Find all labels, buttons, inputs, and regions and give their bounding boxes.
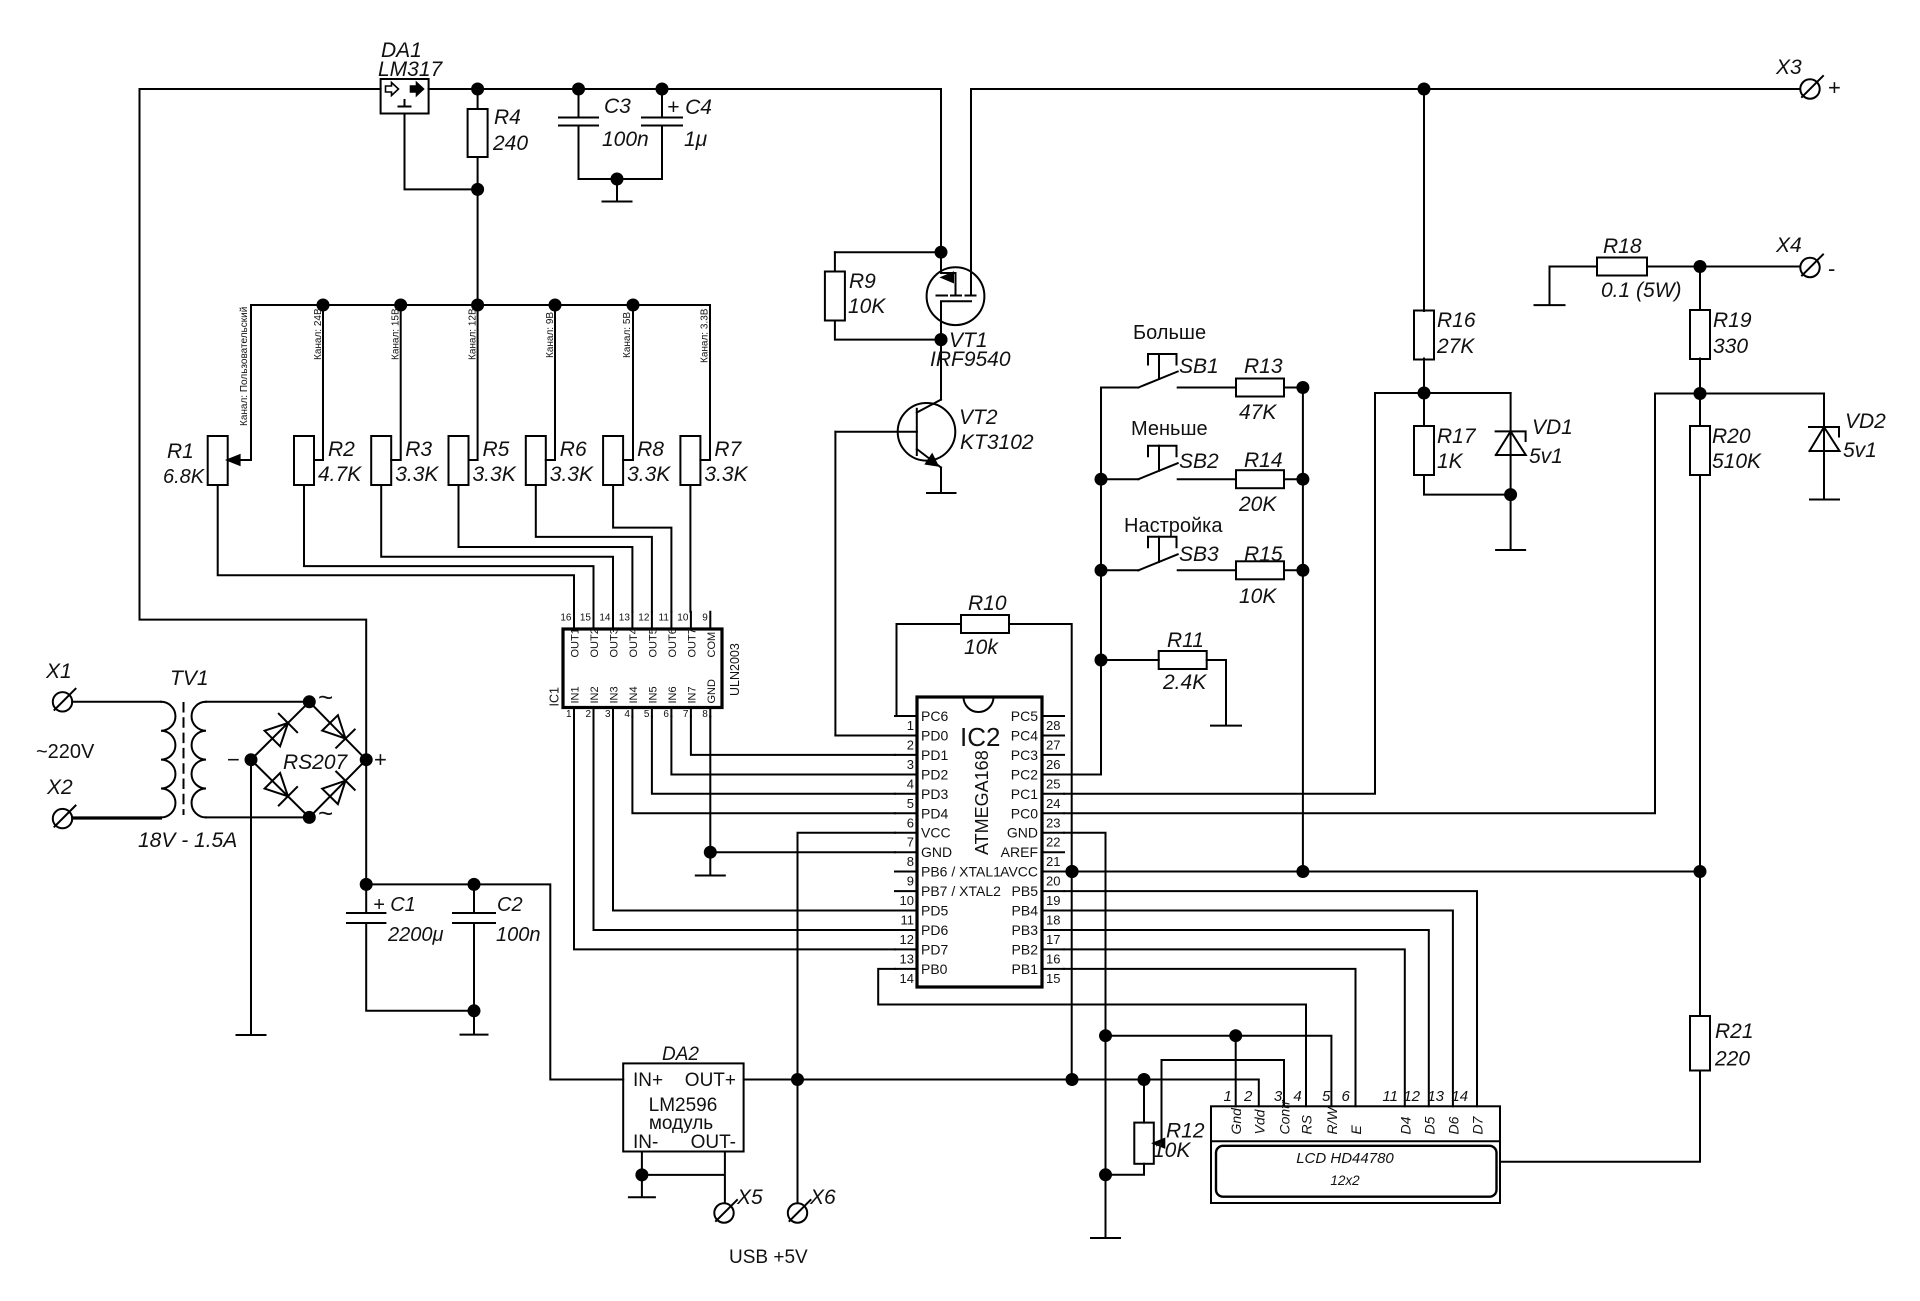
svg-text:13: 13 [1427, 1088, 1444, 1105]
svg-text:240: 240 [492, 132, 528, 155]
svg-text:X2: X2 [46, 776, 73, 799]
svg-text:4: 4 [624, 709, 630, 720]
svg-text:3.3K: 3.3K [550, 463, 594, 486]
svg-text:11: 11 [1382, 1088, 1398, 1105]
svg-text:21: 21 [1046, 854, 1060, 869]
svg-text:GND: GND [706, 679, 718, 704]
svg-text:PB2: PB2 [1012, 941, 1039, 957]
svg-text:12: 12 [638, 613, 650, 624]
svg-text:10K: 10K [1153, 1139, 1191, 1162]
svg-text:+: + [374, 747, 387, 772]
svg-text:TV1: TV1 [170, 667, 209, 690]
svg-text:D6: D6 [1445, 1116, 1461, 1134]
svg-text:OUT+: OUT+ [685, 1070, 736, 1091]
svg-text:15: 15 [580, 613, 592, 624]
svg-text:1K: 1K [1437, 450, 1464, 473]
svg-text:220: 220 [1714, 1048, 1750, 1071]
svg-text:PB1: PB1 [1012, 961, 1039, 977]
svg-text:PC5: PC5 [1011, 708, 1038, 724]
svg-text:OUT6: OUT6 [667, 628, 679, 657]
svg-text:5: 5 [907, 796, 914, 811]
svg-text:11: 11 [901, 913, 915, 928]
svg-text:PB6 / XTAL1: PB6 / XTAL1 [921, 864, 1001, 880]
svg-text:17: 17 [1046, 932, 1060, 947]
svg-text:GND: GND [921, 844, 952, 860]
svg-text:47K: 47K [1239, 401, 1277, 424]
svg-text:2: 2 [907, 738, 914, 753]
svg-text:X6: X6 [809, 1186, 836, 1209]
svg-text:R2: R2 [328, 438, 355, 461]
svg-text:5: 5 [644, 709, 650, 720]
svg-text:3.3K: 3.3K [704, 463, 748, 486]
svg-text:PB0: PB0 [921, 961, 948, 977]
svg-text:R5: R5 [483, 438, 510, 461]
svg-text:510K: 510K [1712, 450, 1762, 473]
svg-text:X3: X3 [1775, 56, 1802, 79]
svg-text:PD1: PD1 [921, 747, 948, 763]
svg-text:PD3: PD3 [921, 786, 948, 802]
svg-text:R7: R7 [714, 438, 742, 461]
svg-text:D7: D7 [1470, 1115, 1486, 1134]
svg-text:GND: GND [1007, 825, 1038, 841]
svg-text:Канал: 3.3В: Канал: 3.3В [700, 308, 711, 363]
svg-text:8: 8 [907, 854, 914, 869]
svg-text:3: 3 [1274, 1088, 1283, 1105]
svg-text:PC6: PC6 [921, 708, 948, 724]
svg-text:R14: R14 [1244, 449, 1283, 472]
svg-text:R9: R9 [849, 270, 876, 293]
svg-text:330: 330 [1713, 335, 1748, 358]
svg-text:PC1: PC1 [1011, 786, 1038, 802]
svg-text:PB5: PB5 [1012, 883, 1039, 899]
svg-text:PB7 / XTAL2: PB7 / XTAL2 [921, 883, 1001, 899]
svg-text:Канал: 24В: Канал: 24В [313, 308, 324, 360]
svg-text:RS207: RS207 [283, 751, 349, 774]
svg-text:PC4: PC4 [1011, 728, 1038, 744]
svg-text:OUT3: OUT3 [609, 628, 621, 657]
svg-text:−: − [227, 747, 240, 772]
svg-text:3.3K: 3.3K [395, 463, 439, 486]
svg-text:1: 1 [566, 709, 572, 720]
svg-text:X1: X1 [45, 660, 72, 683]
svg-text:2: 2 [585, 709, 591, 720]
svg-text:14: 14 [599, 613, 611, 624]
svg-text:R6: R6 [560, 438, 587, 461]
svg-text:4: 4 [907, 777, 914, 792]
svg-text:20: 20 [1046, 874, 1060, 889]
svg-text:5v1: 5v1 [1843, 439, 1877, 462]
svg-text:28: 28 [1046, 718, 1060, 733]
svg-text:OUT2: OUT2 [589, 628, 601, 657]
svg-text:IN2: IN2 [589, 686, 601, 703]
svg-text:AVCC: AVCC [1000, 864, 1038, 880]
svg-text:26: 26 [1046, 757, 1060, 772]
svg-text:Канал: 5В: Канал: 5В [622, 312, 633, 358]
svg-text:2.4K: 2.4K [1162, 671, 1207, 694]
svg-text:IN5: IN5 [647, 686, 659, 703]
svg-text:AREF: AREF [1001, 844, 1038, 860]
svg-text:10: 10 [677, 613, 689, 624]
svg-text:PD5: PD5 [921, 903, 948, 919]
svg-text:7: 7 [907, 835, 914, 850]
svg-text:E: E [1348, 1125, 1364, 1135]
svg-text:R15: R15 [1244, 543, 1283, 566]
svg-text:3.3K: 3.3K [473, 463, 517, 486]
svg-text:PD7: PD7 [921, 941, 948, 957]
svg-text:X5: X5 [736, 1186, 763, 1209]
svg-text:R21: R21 [1715, 1020, 1754, 1043]
svg-text:R16: R16 [1437, 309, 1476, 332]
svg-text:9: 9 [907, 874, 914, 889]
svg-text:25: 25 [1046, 777, 1060, 792]
svg-text:R18: R18 [1603, 235, 1642, 258]
svg-text:3: 3 [907, 757, 914, 772]
svg-text:VT2: VT2 [959, 406, 998, 429]
svg-text:USB +5V: USB +5V [729, 1247, 808, 1268]
svg-text:R10: R10 [968, 592, 1007, 615]
svg-text:18: 18 [1046, 913, 1060, 928]
svg-text:~: ~ [318, 682, 333, 712]
svg-text:5: 5 [1322, 1088, 1331, 1105]
svg-text:14: 14 [900, 971, 914, 986]
svg-text:D4: D4 [1397, 1116, 1413, 1134]
svg-text:IC1: IC1 [548, 687, 562, 707]
svg-text:23: 23 [1046, 815, 1060, 830]
svg-text:DA2: DA2 [662, 1044, 699, 1065]
svg-text:SB1: SB1 [1179, 355, 1219, 378]
svg-text:20K: 20K [1238, 493, 1277, 516]
svg-text:24: 24 [1046, 796, 1060, 811]
svg-text:8: 8 [702, 709, 708, 720]
svg-text:R4: R4 [494, 106, 521, 129]
svg-text:IC2: IC2 [960, 722, 1000, 752]
svg-text:-: - [1828, 256, 1835, 281]
svg-text:1: 1 [907, 718, 914, 733]
svg-text:6.8K: 6.8K [163, 466, 206, 488]
svg-text:PC0: PC0 [1011, 805, 1038, 821]
svg-text:Канал: 12В: Канал: 12В [468, 308, 479, 360]
svg-text:~220V: ~220V [36, 741, 95, 763]
svg-text:PB3: PB3 [1012, 922, 1039, 938]
svg-text:18V - 1.5A: 18V - 1.5A [138, 829, 237, 852]
svg-text:R1: R1 [167, 440, 194, 463]
svg-text:6: 6 [1341, 1088, 1350, 1105]
svg-text:R13: R13 [1244, 355, 1283, 378]
svg-text:0.1 (5W): 0.1 (5W) [1601, 279, 1682, 302]
svg-text:19: 19 [1046, 893, 1060, 908]
svg-text:IN6: IN6 [667, 686, 679, 703]
svg-text:Канал: Пользовательский: Канал: Пользовательский [239, 307, 250, 426]
svg-text:IRF9540: IRF9540 [930, 348, 1011, 371]
svg-text:VD2: VD2 [1845, 410, 1886, 433]
svg-text:IN7: IN7 [686, 686, 698, 703]
svg-text:Gnd: Gnd [1228, 1107, 1244, 1135]
svg-text:100n: 100n [496, 924, 541, 946]
svg-text:100n: 100n [602, 128, 649, 151]
svg-text:OUT1: OUT1 [570, 628, 582, 657]
svg-text:Больше: Больше [1133, 322, 1206, 344]
svg-text:OUT4: OUT4 [628, 628, 640, 657]
svg-text:LCD HD44780: LCD HD44780 [1296, 1150, 1394, 1167]
svg-text:C3: C3 [604, 95, 631, 118]
svg-text:IN+: IN+ [633, 1070, 663, 1091]
svg-text:10K: 10K [848, 295, 886, 318]
svg-text:+ C4: + C4 [667, 96, 712, 119]
svg-text:13: 13 [900, 951, 914, 966]
svg-text:C2: C2 [497, 894, 523, 916]
svg-text:5v1: 5v1 [1529, 445, 1563, 468]
svg-text:IN-: IN- [633, 1132, 658, 1153]
svg-text:ULN2003: ULN2003 [728, 643, 742, 696]
svg-text:PD0: PD0 [921, 728, 948, 744]
svg-text:IN1: IN1 [570, 686, 582, 703]
svg-text:11: 11 [659, 613, 670, 624]
svg-text:+ C1: + C1 [373, 894, 416, 916]
svg-text:PD6: PD6 [921, 922, 948, 938]
svg-text:12: 12 [1403, 1088, 1420, 1105]
svg-text:16: 16 [1046, 951, 1060, 966]
svg-text:RS: RS [1299, 1114, 1315, 1134]
svg-text:R20: R20 [1712, 425, 1751, 448]
svg-text:1μ: 1μ [684, 128, 708, 151]
svg-text:+: + [1828, 75, 1841, 100]
svg-text:14: 14 [1451, 1088, 1468, 1105]
svg-text:SB3: SB3 [1179, 543, 1219, 566]
svg-text:X4: X4 [1775, 234, 1802, 257]
svg-text:27: 27 [1046, 738, 1060, 753]
svg-text:4: 4 [1293, 1088, 1301, 1105]
svg-text:27K: 27K [1436, 335, 1475, 358]
svg-text:PC3: PC3 [1011, 747, 1038, 763]
svg-text:LM317: LM317 [378, 58, 444, 81]
svg-text:VCC: VCC [921, 825, 951, 841]
svg-text:D5: D5 [1421, 1116, 1437, 1134]
svg-text:Канал: 15В: Канал: 15В [391, 308, 402, 360]
svg-text:VD1: VD1 [1532, 416, 1573, 439]
svg-text:10: 10 [900, 893, 914, 908]
svg-text:SB2: SB2 [1179, 450, 1219, 473]
svg-text:Меньше: Меньше [1131, 418, 1208, 440]
svg-text:Vdd: Vdd [1251, 1108, 1267, 1134]
svg-text:PB4: PB4 [1012, 903, 1039, 919]
svg-text:10k: 10k [964, 636, 999, 659]
svg-text:R/W: R/W [1324, 1106, 1340, 1135]
svg-text:R17: R17 [1437, 425, 1477, 448]
svg-text:KT3102: KT3102 [960, 431, 1034, 454]
svg-text:COM: COM [706, 632, 718, 658]
svg-text:OUT-: OUT- [691, 1132, 736, 1153]
svg-text:R8: R8 [637, 438, 664, 461]
svg-text:R19: R19 [1713, 309, 1752, 332]
svg-text:7: 7 [683, 709, 689, 720]
svg-text:R11: R11 [1167, 629, 1204, 652]
svg-text:OUT7: OUT7 [686, 628, 698, 657]
svg-text:12: 12 [900, 932, 914, 947]
svg-text:9: 9 [702, 613, 708, 624]
svg-text:IN4: IN4 [628, 686, 640, 703]
svg-text:6: 6 [663, 709, 669, 720]
svg-text:модуль: модуль [649, 1113, 713, 1134]
svg-text:1: 1 [1223, 1088, 1231, 1105]
svg-text:13: 13 [619, 613, 631, 624]
svg-text:PD4: PD4 [921, 805, 948, 821]
svg-text:15: 15 [1046, 971, 1060, 986]
svg-text:OUT5: OUT5 [647, 628, 659, 657]
svg-text:4.7K: 4.7K [318, 463, 362, 486]
svg-text:Настройка: Настройка [1124, 515, 1223, 537]
svg-text:R3: R3 [405, 438, 432, 461]
svg-text:22: 22 [1046, 835, 1060, 850]
svg-text:3.3K: 3.3K [627, 463, 671, 486]
svg-text:10K: 10K [1239, 585, 1277, 608]
svg-text:PC2: PC2 [1011, 767, 1038, 783]
svg-text:~: ~ [318, 798, 333, 828]
svg-text:3: 3 [605, 709, 611, 720]
svg-text:2: 2 [1243, 1088, 1253, 1105]
svg-text:16: 16 [560, 613, 572, 624]
svg-text:2200μ: 2200μ [387, 924, 443, 946]
svg-text:Канал: 9В: Канал: 9В [545, 312, 556, 358]
svg-text:PD2: PD2 [921, 767, 948, 783]
svg-text:IN3: IN3 [609, 686, 621, 703]
svg-text:12x2: 12x2 [1330, 1173, 1360, 1188]
svg-text:6: 6 [907, 815, 914, 830]
svg-text:ATMEGA168: ATMEGA168 [972, 750, 992, 855]
